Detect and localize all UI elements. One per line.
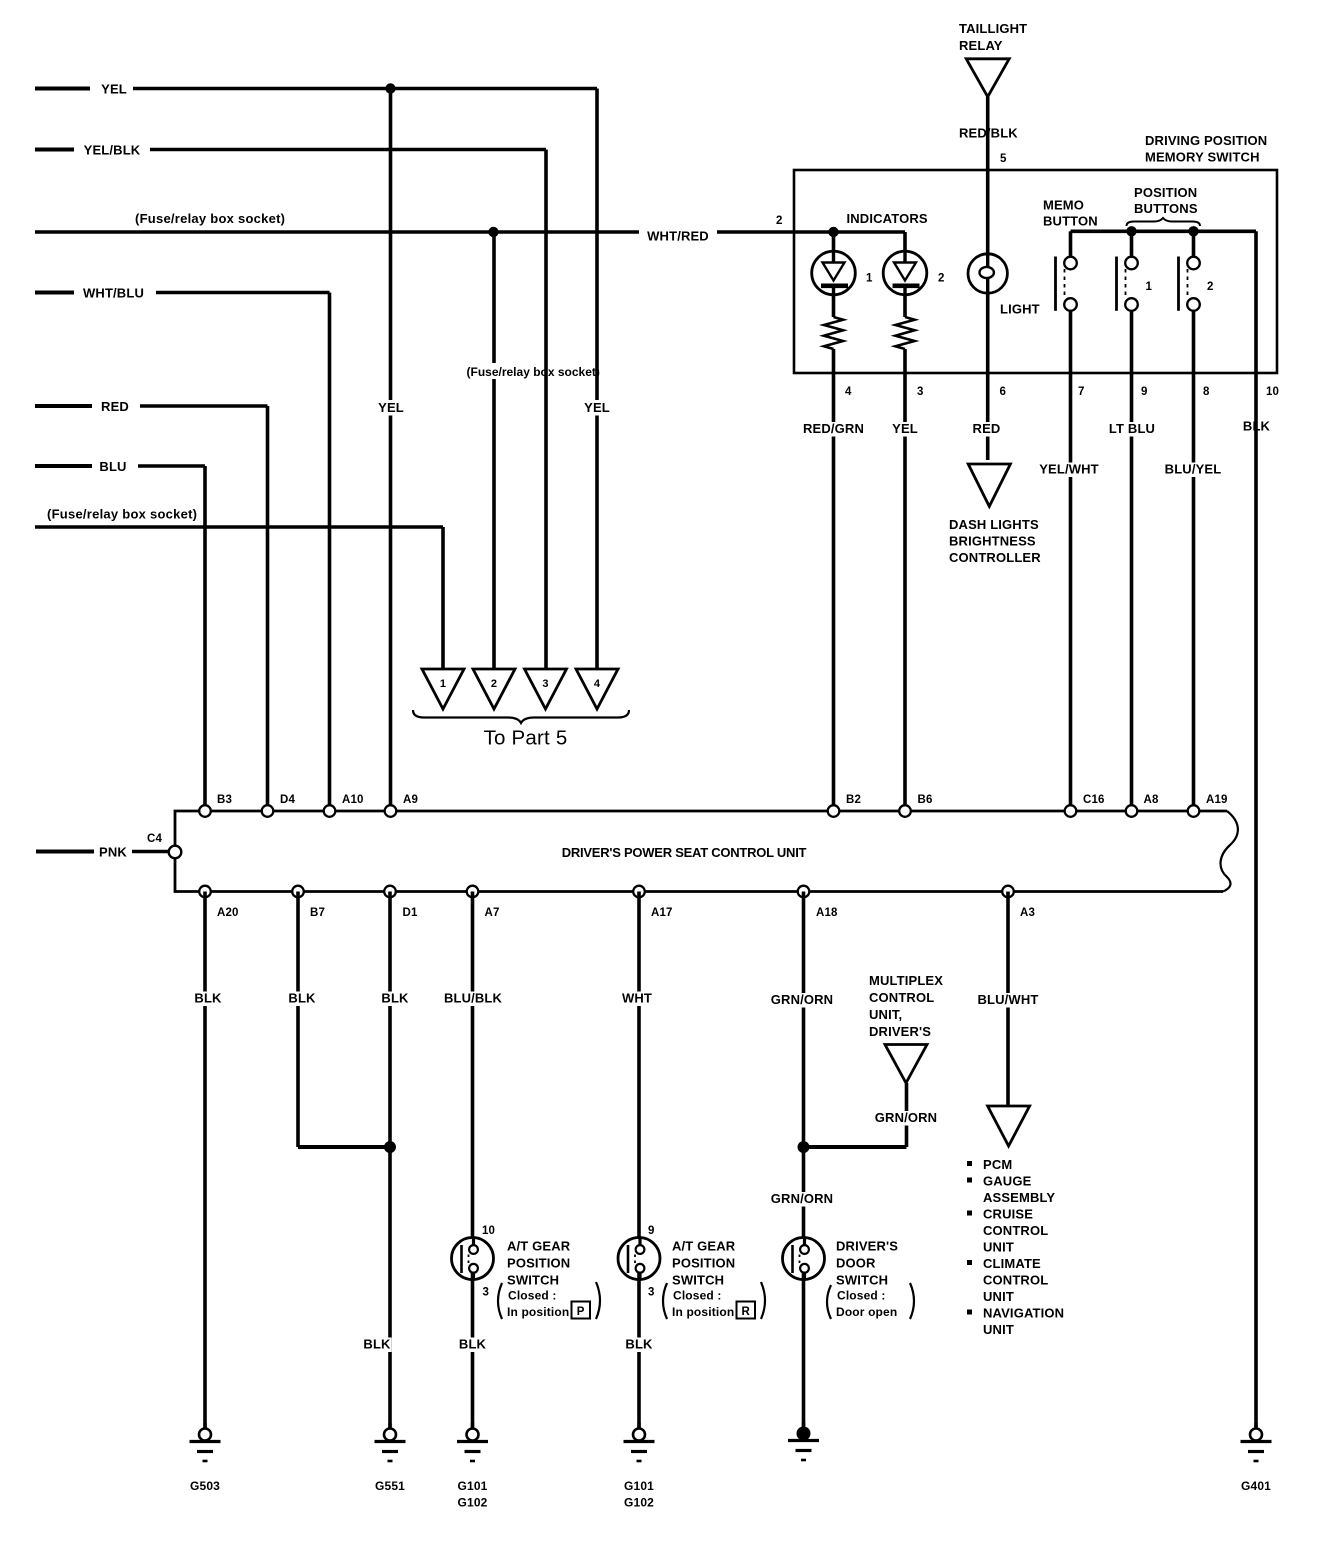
svg-text:A20: A20 [217,907,239,919]
resistor indicator 1 [824,317,843,349]
wire memo button to pin 7 [1069,311,1073,811]
wire drop to arrow 2 (fuse/relay box socket) [492,232,496,669]
svg-text:BLK: BLK [381,991,409,1006]
svg-text:Closed :: Closed : [673,1289,722,1303]
connector arrow A3 to units [988,1106,1030,1146]
brace To Part 5 [413,710,629,723]
svg-text:BLK: BLK [363,1337,391,1352]
svg-text:A/T GEAR: A/T GEAR [507,1239,571,1254]
pin B7 [292,886,304,898]
node rail position 2 [1188,226,1198,236]
position button 1 switch [1130,231,1134,257]
wire A/T switch P BLK to ground [471,1272,475,1430]
svg-text:DRIVER'S: DRIVER'S [836,1239,898,1254]
wire BLU drop to B3 [203,466,207,811]
pin B2 [828,805,840,817]
indicator lamp 1 [812,251,856,295]
svg-text:YEL: YEL [892,421,918,436]
svg-text:GRN/ORN: GRN/ORN [771,1191,833,1206]
pin D1 [384,886,396,898]
wire BLK pin10 to G401 [1254,373,1258,1429]
svg-text:RED/BLK: RED/BLK [959,126,1018,141]
ground G401 [1254,1423,1257,1429]
pin A3 [1002,886,1014,898]
wire A3 BLU/WHT [1006,892,1010,1107]
svg-text:3: 3 [917,386,924,398]
svg-text:9: 9 [648,1225,655,1237]
svg-text:B2: B2 [846,794,861,806]
pin C16 [1065,805,1077,817]
wire A18 GRN/ORN [802,892,806,1246]
svg-text:A10: A10 [342,794,364,806]
svg-text:A17: A17 [651,907,673,919]
wire indicator 2 to pin 3 / B6 [903,349,907,811]
svg-text:To Part 5: To Part 5 [484,727,568,750]
wire B7 BLK [296,892,300,1148]
wire drop to arrow 1 [441,527,445,669]
svg-text:R: R [741,1306,750,1318]
node indicator junction [828,227,838,237]
svg-text:C4: C4 [147,833,162,845]
svg-text:G401: G401 [1241,1479,1271,1493]
label BLU/YEL [1163,463,1224,478]
svg-text:YEL: YEL [101,82,127,97]
svg-text:BRIGHTNESS: BRIGHTNESS [949,534,1036,549]
pin B3 [199,805,211,817]
svg-text:G102: G102 [458,1496,488,1510]
svg-text:D4: D4 [280,794,295,806]
wire position 1 to pin 9 [1130,311,1134,811]
pin A9 [385,805,397,817]
node A18 junction to multiplex [798,1141,810,1153]
svg-text:PNK: PNK [99,845,127,860]
svg-text:CONTROLLER: CONTROLLER [949,550,1041,565]
connector arrow 4 to part 5 [576,669,618,709]
svg-text:SWITCH: SWITCH [507,1273,559,1288]
svg-text:BLU/YEL: BLU/YEL [1165,462,1222,477]
wire light bulb column pin 5 to pin 6 [986,170,990,460]
svg-text:RED/GRN: RED/GRN [803,421,864,436]
ground G503 [203,1423,206,1429]
wire D1 BLK to G551 [388,892,392,1430]
svg-text:G101: G101 [624,1479,654,1493]
label GRN/ORN multiplex [876,1111,937,1126]
svg-text:LIGHT: LIGHT [1000,302,1040,317]
svg-text:A3: A3 [1020,907,1035,919]
driver's door switch [783,1238,825,1280]
svg-text:GRN/ORN: GRN/ORN [875,1110,937,1125]
svg-text:2: 2 [1207,281,1214,293]
wire A17 WHT [637,892,641,1246]
svg-text:BLK: BLK [194,991,222,1006]
svg-text:G551: G551 [375,1479,405,1493]
wire RED feed [35,404,92,408]
wire drop to arrow 4 [595,89,599,670]
wire A7 BLU/BLK [471,892,475,1246]
pin A8 [1126,805,1138,817]
svg-text:P: P [577,1306,585,1318]
svg-text:LT BLU: LT BLU [1109,421,1155,436]
svg-text:BLK: BLK [459,1337,487,1352]
svg-text:1: 1 [866,273,873,285]
wire position 2 to pin 8 [1192,311,1196,811]
wire YEL drop to A9 [389,89,393,812]
svg-text:DRIVER'S: DRIVER'S [869,1024,931,1039]
wire indicator 2 drop [903,232,907,317]
svg-text:POSITION: POSITION [672,1256,735,1271]
wire switch common rail to pin 10 [1071,230,1257,234]
svg-text:POSITION: POSITION [1134,185,1197,200]
wire PNK feed to C4 [36,850,94,854]
svg-text:2: 2 [776,215,783,227]
svg-text:DASH LIGHTS: DASH LIGHTS [949,517,1039,532]
pin A19 [1188,805,1200,817]
svg-text:B6: B6 [918,794,933,806]
svg-text:WHT/BLU: WHT/BLU [83,286,144,301]
label YEL pin3 [890,422,919,437]
connector arrow multiplex control unit [885,1045,927,1084]
wire WHT/BLU drop to A10 [328,293,332,812]
svg-text:CRUISE: CRUISE [983,1207,1033,1222]
svg-text:CONTROL: CONTROL [983,1273,1048,1288]
pin A17 [633,886,645,898]
svg-text:In position: In position [672,1305,734,1319]
svg-text:BUTTONS: BUTTONS [1134,201,1198,216]
svg-text:BLK: BLK [625,1337,653,1352]
svg-text:INDICATORS: INDICATORS [847,211,928,226]
connector arrow 1 to part 5 [422,669,464,709]
svg-text:3: 3 [483,1287,490,1299]
svg-text:RED: RED [973,421,1001,436]
resistor indicator 2 [895,317,914,349]
svg-text:SWITCH: SWITCH [672,1273,724,1288]
wire A/T switch R BLK to ground [637,1272,641,1430]
svg-text:YEL: YEL [378,400,404,415]
ground G551 [388,1423,391,1429]
control unit wavy right edge [1221,811,1238,892]
svg-text:BLU/BLK: BLU/BLK [444,991,503,1006]
svg-text:GAUGE: GAUGE [983,1174,1032,1189]
svg-text:UNIT: UNIT [983,1322,1014,1337]
ground G101/G102 (R switch) [637,1423,640,1429]
driving position memory switch box [794,170,1277,373]
svg-text:YEL/WHT: YEL/WHT [1039,462,1099,477]
svg-text:2: 2 [938,273,945,285]
svg-text:RED: RED [101,399,129,414]
svg-text:CONTROL: CONTROL [983,1223,1048,1238]
svg-text:A7: A7 [485,907,500,919]
svg-text:NAVIGATION: NAVIGATION [983,1306,1064,1321]
svg-text:4: 4 [845,386,852,398]
svg-text:SWITCH: SWITCH [836,1273,888,1288]
connector arrow 2 to part 5 [473,669,515,709]
svg-text:G102: G102 [624,1496,654,1510]
ground G101/G102 (P switch) [471,1423,474,1429]
memo button switch [1069,231,1073,257]
driver's power seat control unit box [175,811,1227,892]
node WHT/RED junction [488,227,498,237]
svg-text:WHT/RED: WHT/RED [647,229,709,244]
svg-text:Closed :: Closed : [837,1289,886,1303]
pin D4 [262,805,274,817]
svg-text:PCM: PCM [983,1157,1012,1172]
svg-text:(Fuse/relay box socket): (Fuse/relay box socket) [467,365,600,379]
svg-text:YEL: YEL [584,400,610,415]
units list [967,1161,972,1166]
label RED/GRN [803,422,864,437]
svg-text:BLU/WHT: BLU/WHT [978,992,1039,1007]
svg-text:MEMORY SWITCH: MEMORY SWITCH [1145,150,1260,165]
label LT BLU [1106,422,1159,437]
wire indicator 1 drop [832,232,836,317]
wire BLU feed [35,464,92,468]
svg-text:A/T GEAR: A/T GEAR [672,1239,736,1254]
wire A20 BLK to G503 [203,892,207,1430]
pin A10 [324,805,336,817]
svg-text:UNIT,: UNIT, [869,1007,902,1022]
indicator lamp 2 [883,251,927,295]
svg-text:A19: A19 [1206,794,1228,806]
ground driver's door switch [802,1422,805,1428]
svg-text:7: 7 [1078,386,1085,398]
svg-text:In position: In position [507,1305,569,1319]
svg-text:10: 10 [482,1225,495,1237]
pin B6 [899,805,911,817]
svg-text:UNIT: UNIT [983,1240,1014,1255]
svg-text:UNIT: UNIT [983,1289,1014,1304]
svg-text:ASSEMBLY: ASSEMBLY [983,1190,1055,1205]
svg-text:POSITION: POSITION [507,1256,570,1271]
svg-text:WHT: WHT [622,991,652,1006]
position button 2 switch [1192,231,1196,257]
wire YEL feed [35,87,90,91]
svg-text:BLK: BLK [288,991,316,1006]
svg-text:3: 3 [542,678,548,690]
connector arrow 3 to part 5 [525,669,567,709]
node YEL junction [385,83,395,93]
svg-text:(Fuse/relay box socket): (Fuse/relay box socket) [135,211,285,226]
svg-text:(Fuse/relay box socket): (Fuse/relay box socket) [47,507,197,522]
wire RED drop to D4 [266,406,270,811]
wire junction to multiplex control unit [804,1145,907,1149]
svg-text:Closed :: Closed : [508,1289,557,1303]
node B7/D1 junction [384,1141,396,1153]
label YEL/WHT [1039,463,1100,478]
svg-text:1: 1 [440,678,446,690]
light bulb [968,254,1007,293]
wire WHT/BLU feed [35,291,74,295]
svg-text:Door open: Door open [836,1305,897,1319]
svg-text:4: 4 [594,678,601,690]
wire drop to arrow 3 [544,150,548,670]
brace position buttons [1127,218,1201,226]
svg-text:BUTTON: BUTTON [1043,214,1098,229]
svg-text:B7: B7 [310,907,325,919]
svg-text:9: 9 [1141,386,1148,398]
pin A7 [467,886,479,898]
svg-text:DRIVER'S POWER SEAT CONTROL UN: DRIVER'S POWER SEAT CONTROL UNIT [562,845,807,860]
svg-text:G101: G101 [458,1479,488,1493]
wire RED/BLK relay to box pin 5 [986,97,990,170]
connector arrow dash lights brightness controller [968,464,1010,506]
svg-text:10: 10 [1266,386,1279,398]
svg-text:6: 6 [1000,386,1007,398]
node rail position 1 [1126,226,1136,236]
svg-text:A18: A18 [816,907,838,919]
connector arrow taillight relay [966,59,1009,97]
svg-text:3: 3 [648,1287,655,1299]
svg-text:A9: A9 [403,794,418,806]
svg-text:A8: A8 [1144,794,1159,806]
svg-text:YEL/BLK: YEL/BLK [84,143,141,158]
wire indicator 1 to pin 4 / B2 [832,349,836,811]
svg-text:TAILLIGHT: TAILLIGHT [959,21,1027,36]
wire door switch to ground [802,1272,806,1429]
svg-text:RELAY: RELAY [959,38,1003,53]
label BLK pin10 [1242,420,1271,435]
svg-text:2: 2 [491,678,497,690]
svg-text:B3: B3 [217,794,232,806]
svg-text:GRN/ORN: GRN/ORN [771,992,833,1007]
svg-text:5: 5 [1000,153,1007,165]
svg-text:DRIVING POSITION: DRIVING POSITION [1145,133,1267,148]
label GRN/ORN lower [772,1192,833,1207]
svg-text:CLIMATE: CLIMATE [983,1256,1041,1271]
svg-text:G503: G503 [190,1479,220,1493]
svg-text:DOOR: DOOR [836,1256,876,1271]
svg-text:D1: D1 [403,907,418,919]
svg-text:MEMO: MEMO [1043,198,1084,213]
pin A18 [798,886,810,898]
wire YEL/BLK feed [35,148,74,152]
label RED pin6 [972,422,1001,437]
svg-text:C16: C16 [1083,794,1105,806]
pin A20 [199,886,211,898]
svg-text:CONTROL: CONTROL [869,990,934,1005]
svg-text:8: 8 [1203,386,1210,398]
svg-text:1: 1 [1146,281,1153,293]
svg-text:BLU: BLU [99,459,126,474]
svg-text:MULTIPLEX: MULTIPLEX [869,973,943,988]
